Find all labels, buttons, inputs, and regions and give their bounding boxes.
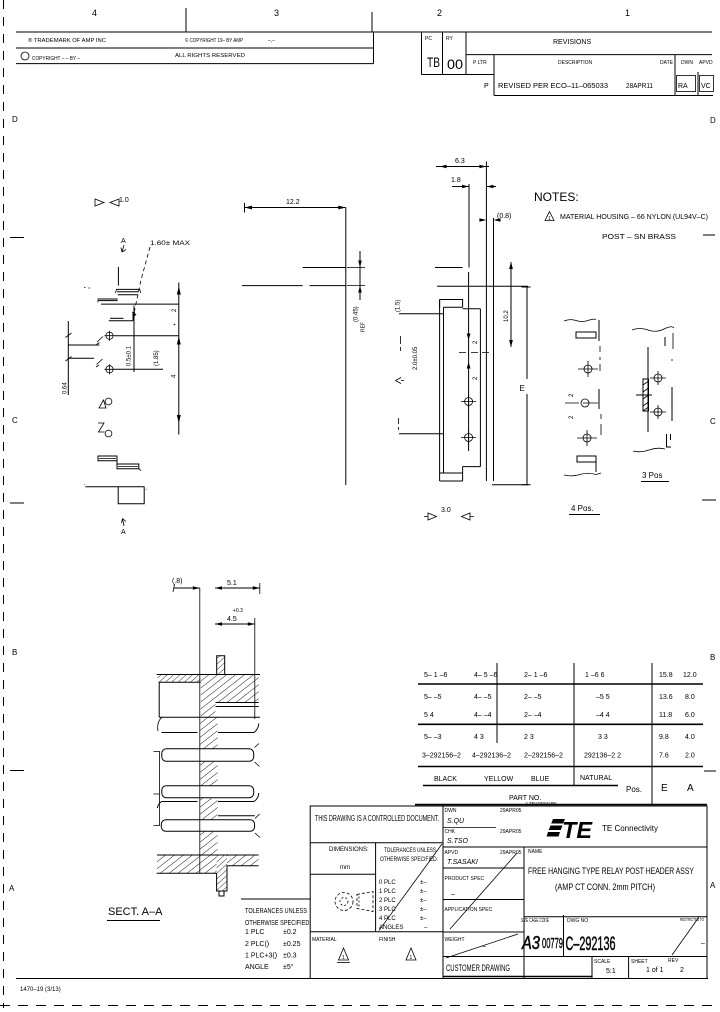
sect bar2 xyxy=(162,786,254,798)
sect cavity outline xyxy=(159,682,201,717)
header box line mid xyxy=(16,47,374,49)
svg-text:2 PLC: 2 PLC xyxy=(379,898,396,904)
bottom tee notch xyxy=(118,487,144,504)
pitch chain centerline xyxy=(468,272,470,451)
svg-text:DWN: DWN xyxy=(681,60,693,66)
svg-text:1: 1 xyxy=(410,955,413,961)
pin target circle a xyxy=(465,398,473,406)
3pos centerline xyxy=(647,347,649,432)
svg-text:5– 1 –6: 5– 1 –6 xyxy=(424,672,447,679)
svg-text:7.6: 7.6 xyxy=(659,753,669,760)
dim arrow up top xyxy=(177,287,181,295)
svg-text:29APR05: 29APR05 xyxy=(500,808,522,814)
sect bar3 xyxy=(161,820,254,832)
rotated dim bracket dash a xyxy=(400,336,402,351)
post len arrow top xyxy=(509,262,513,269)
sect dim .8 arrow xyxy=(193,586,200,590)
svg-text:2– –4: 2– –4 xyxy=(524,712,542,719)
target pin2 circle xyxy=(106,366,113,373)
pin target cross b xyxy=(461,430,476,445)
SECTION:CENTERVIEW xyxy=(396,158,531,520)
target pin1 cross xyxy=(105,331,115,341)
body right vertical xyxy=(479,309,481,467)
svg-text:4 3: 4 3 xyxy=(474,734,484,741)
customer drawing heavy underline xyxy=(443,976,592,978)
svg-text:REVISIONS: REVISIONS xyxy=(553,39,591,46)
sect 4.5 ext vertical xyxy=(254,618,256,719)
svg-text:E: E xyxy=(520,384,525,393)
3pos lug hatch xyxy=(643,381,649,411)
dim 6.3 arrow left xyxy=(440,165,447,169)
svg-text:COPYRIGHT – – BY –: COPYRIGHT – – BY – xyxy=(32,56,80,62)
pn col divider 2 xyxy=(573,663,575,786)
svg-text:1 of 1: 1 of 1 xyxy=(646,967,664,974)
svg-text:(1.85): (1.85) xyxy=(154,350,160,366)
4pos bottom cap rect xyxy=(577,456,596,462)
zone tick top b xyxy=(371,12,373,32)
sect slab top line xyxy=(157,854,259,856)
4pos break line top xyxy=(564,319,596,321)
sect bar3 right tick xyxy=(255,814,260,838)
svg-text:B: B xyxy=(12,648,17,657)
4pos centerline dashes xyxy=(600,346,601,435)
sect tail outline xyxy=(217,866,259,891)
post center vertical xyxy=(133,306,135,372)
dim 0.8 arrow right xyxy=(494,218,501,222)
svg-text:11.8: 11.8 xyxy=(659,712,672,719)
sect dim 4.5 arrow left xyxy=(215,622,222,626)
svg-text:YELLOW: YELLOW xyxy=(484,776,514,783)
svg-text:TE Connectivity: TE Connectivity xyxy=(602,824,658,833)
target pin1 circle xyxy=(106,332,113,339)
dim 0.8 arrow left xyxy=(479,218,486,222)
dim 6.3 arrow right xyxy=(479,165,486,169)
svg-text:PC: PC xyxy=(425,36,432,42)
left ext line lower xyxy=(399,433,443,435)
svg-text:RY: RY xyxy=(446,36,454,42)
sect shelf1 right xyxy=(218,724,259,733)
4pos break line bottom xyxy=(564,473,601,476)
svg-text:6.0: 6.0 xyxy=(685,712,695,719)
left extension slash tick b xyxy=(66,357,72,362)
projection circles outer xyxy=(335,893,353,911)
cap side dots xyxy=(84,287,90,290)
section arrow A left xyxy=(396,378,405,384)
svg-text:1470–19 (3/13): 1470–19 (3/13) xyxy=(20,987,61,993)
svg-text:1.0: 1.0 xyxy=(119,197,129,204)
dwg no divider xyxy=(563,915,565,957)
dim extension vertical right xyxy=(178,283,180,435)
svg-text:C: C xyxy=(12,416,18,425)
sect shelf2 right xyxy=(218,793,259,802)
step connector xyxy=(116,461,118,464)
svg-text:00779: 00779 xyxy=(542,935,563,952)
shelf right step xyxy=(133,313,135,321)
svg-text:WEIGHT: WEIGHT xyxy=(445,937,465,943)
svg-text:±0.2: ±0.2 xyxy=(283,929,297,936)
dim 12.2 arrow left xyxy=(245,206,253,210)
header box line bottom xyxy=(16,63,374,65)
datum flag left xyxy=(95,199,104,206)
svg-text:4: 4 xyxy=(92,8,97,18)
tolerances diagonal xyxy=(379,844,442,931)
top flange inner line xyxy=(444,306,463,308)
cap line 2 xyxy=(117,291,139,293)
svg-text:MATERIAL HOUSING – 66 NYLON (U: MATERIAL HOUSING – 66 NYLON (UL94V–C) xyxy=(560,214,708,221)
svg-text:4–292136–2: 4–292136–2 xyxy=(472,753,511,760)
zone tick right notes xyxy=(703,234,715,236)
target pin2 cross xyxy=(105,364,115,374)
sect centerline xyxy=(199,588,201,873)
svg-text:2– –5: 2– –5 xyxy=(524,694,542,701)
sect left ext vertical xyxy=(158,751,160,826)
svg-text:DIMENSIONS:: DIMENSIONS: xyxy=(329,847,369,853)
step lower tick xyxy=(139,469,141,471)
dim 1.8 arrow right xyxy=(486,185,493,189)
svg-text:1.60± MAX: 1.60± MAX xyxy=(150,241,190,247)
post line inner xyxy=(493,218,495,481)
svg-text:* TRADEMARK: * TRADEMARK xyxy=(526,801,557,806)
svg-text:28APR11: 28APR11 xyxy=(626,83,653,90)
svg-text:–,–: –,– xyxy=(268,38,275,44)
sect shelf1 left xyxy=(162,732,198,734)
header released symbol xyxy=(21,52,29,60)
4pos pin cross 1 xyxy=(578,361,598,377)
svg-text:FINISH: FINISH xyxy=(379,937,396,943)
projection trapezoid inner xyxy=(358,897,360,907)
4pos pin cross mid line xyxy=(565,402,598,404)
post len arrow bottom xyxy=(509,340,513,347)
4pos pin cross 2 xyxy=(577,430,597,446)
svg-text:13.6: 13.6 xyxy=(659,694,673,701)
3pos label underline xyxy=(641,481,669,483)
svg-text:REF: REF xyxy=(361,322,367,332)
svg-text:® TRADEMARK OF AMP INC: ® TRADEMARK OF AMP INC xyxy=(28,37,106,44)
weld symbol a triangle xyxy=(99,400,106,408)
dim arrow down low xyxy=(177,415,181,423)
dim arrow up mid xyxy=(177,337,181,345)
svg-text:0 PLC: 0 PLC xyxy=(379,880,396,886)
sect column hatch d xyxy=(200,831,218,855)
svg-text:Pos.: Pos. xyxy=(626,785,642,794)
base line xyxy=(101,303,179,305)
weight diagonal xyxy=(446,934,518,958)
pn col divider 1 xyxy=(496,663,498,743)
sect left ext hooks xyxy=(154,752,160,826)
apvd cell bottom xyxy=(443,867,524,869)
svg-text:BLACK: BLACK xyxy=(434,776,457,783)
post thickness arrow bottom xyxy=(358,286,362,293)
sect dim 5.1 arrow left xyxy=(215,586,222,590)
svg-text:© COPYRIGHT 19– BY AMP: © COPYRIGHT 19– BY AMP xyxy=(185,37,244,44)
frame bottom border xyxy=(16,978,708,980)
sect break hook left top xyxy=(158,717,162,731)
svg-text:MATERIAL: MATERIAL xyxy=(312,937,337,943)
bottom tee top line xyxy=(85,486,144,488)
post bottom line right xyxy=(310,285,346,287)
svg-text:P LTR: P LTR xyxy=(473,60,487,66)
sheet edge dashed left xyxy=(3,0,5,1008)
svg-text:2 PLC(): 2 PLC() xyxy=(245,941,269,948)
svg-text:5:1: 5:1 xyxy=(606,968,616,975)
svg-text:A: A xyxy=(710,881,716,890)
svg-text:5 4: 5 4 xyxy=(424,712,434,719)
svg-text:2 3: 2 3 xyxy=(524,734,534,741)
svg-text:±0.25: ±0.25 xyxy=(283,941,301,948)
3pos small vertical xyxy=(664,337,666,346)
svg-text:3–292156–2: 3–292156–2 xyxy=(422,753,461,760)
shelf line 2 xyxy=(109,320,133,322)
svg-text:–: – xyxy=(451,891,455,898)
rev header underline xyxy=(466,54,712,56)
svg-text:4.0: 4.0 xyxy=(685,734,695,741)
sect column hatch a xyxy=(200,717,218,749)
post thickness arrow top xyxy=(358,261,362,268)
svg-text:3.0: 3.0 xyxy=(441,507,451,514)
rev col divider LTR/DESC xyxy=(493,55,495,96)
3pos pin circle top xyxy=(654,374,662,382)
pitch arrow up xyxy=(467,362,471,369)
title block heavy top line xyxy=(415,804,707,806)
svg-text:A: A xyxy=(121,529,126,536)
svg-text:mm: mm xyxy=(340,865,350,871)
left lead end tick xyxy=(97,298,100,302)
restricted diagonal xyxy=(672,917,699,955)
svg-text:1 PLC: 1 PLC xyxy=(245,929,264,936)
zone tick top a xyxy=(185,8,187,32)
prod spec bottom xyxy=(443,899,524,901)
zone tick right c xyxy=(704,770,716,772)
SECTION:REVBLOCK xyxy=(422,32,714,96)
dim 12.2 ext tick left xyxy=(244,203,246,213)
pitch arrow down xyxy=(467,334,471,341)
slash mark pin1 xyxy=(97,337,104,345)
sect bar1 right tick xyxy=(255,744,260,767)
sect hatch region right xyxy=(201,675,259,717)
pn heavy line 2 xyxy=(418,723,703,725)
view arrow A top arrow xyxy=(121,245,126,252)
size row top line xyxy=(524,916,707,918)
svg-text:2.0: 2.0 xyxy=(685,753,695,760)
sect 5.1 ext tick xyxy=(259,583,261,594)
svg-text:NATURAL: NATURAL xyxy=(580,775,612,782)
sect post tip outline xyxy=(217,656,225,675)
sect shelf3 right xyxy=(218,815,255,817)
svg-text:CUSTOMER DRAWING: CUSTOMER DRAWING xyxy=(446,963,510,973)
svg-text:(1.5): (1.5) xyxy=(396,300,402,312)
post shoulder line xyxy=(435,267,463,269)
svg-text:C–292136: C–292136 xyxy=(566,934,616,955)
step rect lower xyxy=(117,464,139,469)
svg-text:–: – xyxy=(701,940,705,947)
svg-text:A3: A3 xyxy=(521,933,540,953)
step rect upper inner xyxy=(99,457,116,459)
pn heavy line 3 xyxy=(418,766,703,768)
svg-text:1: 1 xyxy=(548,216,551,222)
left ext line to body xyxy=(399,313,443,315)
E dim lower line xyxy=(526,394,528,485)
post thickness dim line xyxy=(359,251,361,300)
title block outline xyxy=(310,806,707,979)
svg-text:DESCRIPTION: DESCRIPTION xyxy=(558,60,593,66)
zone tick left a xyxy=(10,237,24,239)
pitch centerline dash xyxy=(459,352,489,354)
note 1 triangle xyxy=(545,212,554,221)
dim 3.0 arrow right xyxy=(462,513,475,520)
svg-text:5.1: 5.1 xyxy=(227,580,237,587)
svg-text:–4 4: –4 4 xyxy=(596,712,610,719)
scale divider xyxy=(591,957,593,979)
rev block left edge xyxy=(421,32,423,75)
post len dim line xyxy=(510,262,512,347)
pin target circle b xyxy=(465,434,473,442)
svg-text:±0.3: ±0.3 xyxy=(283,953,297,960)
weld symbol b zig xyxy=(98,423,105,432)
bottom step horizontal xyxy=(463,466,481,468)
svg-text:12.2: 12.2 xyxy=(286,199,300,206)
leader from label to post xyxy=(134,247,150,313)
svg-text:–5 5: –5 5 xyxy=(596,694,610,701)
post thickness ext top xyxy=(347,267,365,269)
svg-text:OTHERWISE SPECIFIED:: OTHERWISE SPECIFIED: xyxy=(380,857,438,863)
dim 1.8 ext vertical xyxy=(468,184,470,268)
3pos break line top xyxy=(632,327,674,332)
svg-text:1.8: 1.8 xyxy=(451,177,461,184)
3pos lug cross line xyxy=(636,394,652,396)
svg-text:2–292156–2: 2–292156–2 xyxy=(524,753,563,760)
svg-text:(.8): (.8) xyxy=(172,578,183,585)
weld symbol b circle xyxy=(105,430,112,437)
svg-text:TE: TE xyxy=(562,817,593,843)
post bottom line left xyxy=(242,285,303,287)
4pos right vertical bottom xyxy=(595,462,597,472)
right block divider xyxy=(442,806,444,979)
3pos dashed vertical right xyxy=(672,333,673,361)
svg-text:DWN: DWN xyxy=(445,808,457,814)
SECTION:MIDDIM xyxy=(242,199,367,485)
pin2 dim line xyxy=(115,368,164,370)
view arrow A bottom arrow xyxy=(122,519,127,527)
post line outer xyxy=(485,162,487,482)
svg-text:SIZE CAGE CODE: SIZE CAGE CODE xyxy=(521,918,549,924)
svg-text:3 Pos: 3 Pos xyxy=(642,471,662,480)
svg-text:±–: ±– xyxy=(420,880,427,886)
svg-text:PRODUCT SPEC: PRODUCT SPEC xyxy=(445,876,485,882)
svg-text:1: 1 xyxy=(342,955,345,961)
dim label dot xyxy=(174,324,176,326)
sect dim 5.1 arrow right xyxy=(253,586,260,590)
zone tick left b xyxy=(10,502,24,504)
3pos bottom ell xyxy=(667,434,672,447)
sect post tip hatch xyxy=(217,656,225,675)
svg-text:A: A xyxy=(121,238,126,245)
bottom row top line xyxy=(443,956,707,958)
sect label underline xyxy=(107,920,160,922)
top flange rect xyxy=(440,300,463,308)
bottom extension line xyxy=(492,484,528,486)
3pos hatched lug xyxy=(643,379,649,411)
E dim bottom tick xyxy=(522,484,531,486)
4pos pin circle 2 xyxy=(583,434,591,442)
post top line xyxy=(303,267,346,269)
left extension slash tick a xyxy=(66,333,72,338)
svg-text:00: 00 xyxy=(447,56,463,72)
4pos label underline xyxy=(569,514,600,516)
svg-text:1 PLC+3(): 1 PLC+3() xyxy=(245,953,277,960)
SECTION:TITLEBLOCK xyxy=(241,801,707,979)
left lead double line top xyxy=(99,298,118,300)
pin target cross a xyxy=(461,394,476,409)
svg-text:APVD: APVD xyxy=(699,60,713,66)
svg-text:3: 3 xyxy=(274,8,279,18)
svg-text:TOLERANCES UNLESS: TOLERANCES UNLESS xyxy=(245,908,307,915)
rev box divider 2 xyxy=(465,32,467,75)
post thickness ext bottom xyxy=(347,285,365,287)
rev col divider DWN/APVD xyxy=(697,72,699,96)
post top vertical xyxy=(117,267,119,286)
body left vertical xyxy=(439,300,441,482)
svg-text:(0.45): (0.45) xyxy=(354,306,360,322)
dim 1.8 tail right xyxy=(486,186,496,188)
top step horizontal xyxy=(463,308,481,310)
svg-text:+0.3: +0.3 xyxy=(233,608,243,614)
step rect upper xyxy=(98,456,117,461)
cap line 1 xyxy=(116,288,140,290)
sect tail hatch xyxy=(217,856,227,891)
rev col divider DATE/DWN xyxy=(674,55,676,96)
pn col divider 3 xyxy=(651,663,653,805)
svg-text:(AMP CT CONN. 2mm PITCH): (AMP CT CONN. 2mm PITCH) xyxy=(555,882,655,892)
dimensions cell divider xyxy=(375,843,377,932)
svg-text:A: A xyxy=(9,884,15,893)
svg-text:4.5: 4.5 xyxy=(227,616,237,623)
svg-text:A: A xyxy=(687,783,694,794)
svg-text:THIS DRAWING IS A CONTROLLED D: THIS DRAWING IS A CONTROLLED DOCUMENT. xyxy=(315,814,439,823)
sect slab hatch left xyxy=(157,856,217,874)
svg-text:D: D xyxy=(12,115,18,124)
dim 1.8 arrow xyxy=(462,185,469,189)
material rev triangle xyxy=(339,948,349,960)
body top surface line xyxy=(437,285,528,287)
svg-text:ALL RIGHTS RESERVED: ALL RIGHTS RESERVED xyxy=(175,53,245,59)
svg-text:D: D xyxy=(710,116,716,125)
svg-text:S.TSO: S.TSO xyxy=(447,838,469,845)
SECTION:PNTABLE xyxy=(418,663,703,805)
svg-text:ANGLE: ANGLE xyxy=(245,964,269,971)
bottom step vertical xyxy=(462,467,464,473)
left lead double line bottom xyxy=(98,300,117,302)
svg-text:6.3: 6.3 xyxy=(455,158,465,165)
svg-text:SHEET: SHEET xyxy=(631,959,648,965)
sect column hatch c xyxy=(200,798,218,820)
svg-text:P: P xyxy=(484,83,489,90)
3pos pin circle bottom xyxy=(654,408,662,416)
leader arrowhead xyxy=(132,312,136,318)
app spec bottom xyxy=(443,931,524,933)
svg-text:1 –6 6: 1 –6 6 xyxy=(585,672,605,679)
step rect lower inner xyxy=(118,465,138,467)
svg-text:0.64: 0.64 xyxy=(63,382,69,394)
svg-text:APVD: APVD xyxy=(445,850,459,856)
slash mark pin2 xyxy=(96,359,103,367)
svg-text:CHK: CHK xyxy=(445,829,456,835)
rev row bottom line xyxy=(494,95,713,97)
svg-text:1: 1 xyxy=(625,8,630,18)
svg-text:2– 1 –6: 2– 1 –6 xyxy=(524,672,547,679)
finish rev triangle xyxy=(406,948,416,960)
dim 6.3 line left xyxy=(436,166,489,168)
sect lead top line xyxy=(216,702,259,704)
